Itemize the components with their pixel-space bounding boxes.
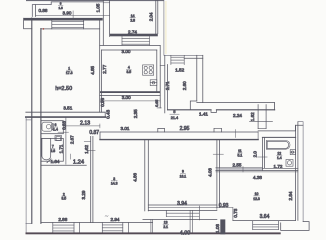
svg-text:3.00: 3.00 — [122, 49, 131, 54]
tilde mark — [105, 215, 108, 218]
svg-text:1.72: 1.72 — [274, 164, 283, 169]
highlighter mark — [165, 1, 167, 54]
svg-text:14: 14 — [131, 14, 135, 18]
svg-text:0.87: 0.87 — [89, 130, 99, 136]
svg-text:2.77: 2.77 — [102, 64, 107, 73]
ground line bottom — [26, 232, 281, 234]
balcony A inner wall face — [34, 5, 36, 17]
svg-text:2.1: 2.1 — [163, 225, 168, 229]
notch in wall — [211, 110, 217, 113]
wall: corridor vertical left — [165, 55, 168, 113]
toilet — [42, 122, 54, 131]
bathroom12 bottom wall — [262, 168, 298, 170]
tick 1.64 — [47, 159, 51, 163]
svg-text:1.05: 1.05 — [95, 3, 100, 12]
svg-text:0.88: 0.88 — [39, 8, 48, 13]
svg-text:0.65: 0.65 — [155, 100, 159, 107]
svg-text:12.3: 12.3 — [253, 197, 260, 201]
tick 1.24 — [69, 154, 71, 159]
wall: kitchen right — [157, 45, 160, 108]
room9 bottom inner face — [148, 204, 217, 206]
svg-text:2.67: 2.67 — [69, 135, 74, 144]
sill loggia — [148, 209, 217, 211]
dimension line 3.94/0.93 — [148, 206, 233, 210]
svg-text:1.41: 1.41 — [199, 111, 208, 116]
wall: kitchen bottom — [100, 91, 161, 93]
tick at loggia window right — [198, 206, 200, 220]
heater room12 — [286, 160, 293, 167]
window shaft vertical — [250, 105, 273, 129]
room1 top inner face — [41, 28, 100, 30]
room label 9/16.1 — [180, 169, 187, 178]
bathroom outer face — [65, 117, 67, 164]
shaft wall / room11 right — [262, 137, 264, 170]
tick on divider top — [84, 140, 91, 142]
tick 0.83 — [58, 131, 69, 133]
svg-text:0.83: 0.83 — [61, 121, 66, 130]
svg-text:2.55: 2.55 — [233, 162, 242, 167]
window room10 — [253, 221, 279, 230]
room label 4/8.5 — [126, 65, 131, 73]
svg-text:2.71: 2.71 — [165, 81, 170, 90]
tick 1.62 left — [86, 149, 95, 151]
wall rooms2-3 bottom inner face — [41, 222, 152, 224]
svg-text:1: 1 — [68, 66, 70, 70]
svg-text:2.13: 2.13 — [80, 120, 90, 126]
svg-text:4.86: 4.86 — [133, 173, 138, 182]
room label 1/17.3 — [66, 66, 73, 75]
svg-text:2.74: 2.74 — [128, 29, 137, 34]
svg-text:3.64: 3.64 — [260, 214, 270, 220]
svg-text:2.95: 2.95 — [180, 126, 190, 132]
tick 2.0 — [258, 156, 268, 158]
svg-text:1.52: 1.52 — [175, 67, 184, 72]
svg-text:2.0: 2.0 — [253, 151, 258, 158]
room label 2/8.5 — [61, 192, 66, 200]
balcony A outline — [32, 2, 102, 17]
bathtub room12 — [266, 141, 290, 150]
window room1 top — [52, 19, 84, 29]
pier on wall 1 — [158, 128, 165, 132]
wall: room9 right / room11 left — [217, 140, 220, 208]
svg-text:4.08: 4.08 — [208, 168, 213, 177]
room label 7/2.8 — [50, 145, 55, 153]
sink kitchen — [150, 80, 157, 86]
svg-text:5: 5 — [173, 110, 175, 114]
wall: room10 right — [296, 122, 298, 221]
loggia top line — [143, 219, 217, 221]
scan top edge — [26, 0, 164, 1]
room label 14/2.8 — [130, 14, 136, 22]
svg-text:4: 4 — [128, 65, 130, 69]
svg-text:1.62: 1.62 — [250, 112, 255, 121]
svg-text:4.00: 4.00 — [180, 230, 191, 235]
svg-text:2.60: 2.60 — [182, 81, 187, 90]
wall: kitchen top — [100, 45, 161, 50]
svg-text:10: 10 — [255, 192, 259, 196]
svg-text:2.35: 2.35 — [133, 109, 138, 118]
svg-text:8: 8 — [60, 2, 62, 6]
outline right cap — [298, 122, 303, 222]
svg-text:1.08: 1.08 — [215, 224, 220, 233]
outline left — [26, 117, 32, 232]
wall: corridor bottom / rooms 3,9,11 top — [100, 132, 258, 140]
window corridor top — [171, 55, 184, 64]
wall: room14 left — [103, 0, 109, 45]
svg-text:2.88: 2.88 — [58, 217, 67, 222]
svg-text:2.84: 2.84 — [288, 191, 293, 200]
svg-text:2.04: 2.04 — [149, 12, 154, 21]
room label 5/21.4 — [170, 110, 179, 120]
svg-text:3.29: 3.29 — [81, 190, 86, 199]
wall: room14 right — [156, 0, 158, 34]
pier on wall 2 — [214, 128, 222, 132]
svg-text:2.8: 2.8 — [50, 149, 55, 153]
bathtub — [42, 138, 51, 160]
dimension ticks 1.05 — [103, 3, 109, 16]
wall: room11 bottom — [216, 168, 263, 171]
wall: corridor top left (room1 bottom) — [26, 112, 105, 117]
step outline room9/room10 — [232, 208, 234, 221]
arm inner step — [190, 101, 197, 109]
window loggia — [166, 210, 199, 216]
svg-text:2.24: 2.24 — [233, 113, 242, 118]
svg-text:1.24: 1.24 — [73, 159, 85, 165]
svg-text:1.5: 1.5 — [58, 6, 63, 10]
svg-text:8.5: 8.5 — [61, 197, 66, 201]
svg-text:1.62: 1.62 — [84, 145, 89, 154]
window/steps between room14 and kitchen — [122, 36, 149, 45]
svg-text:17.3: 17.3 — [66, 71, 73, 75]
svg-text:4.85: 4.85 — [90, 65, 95, 74]
room label 3/14.3 — [111, 177, 118, 186]
window room2 — [53, 223, 80, 233]
svg-text:3.01: 3.01 — [121, 126, 130, 131]
building outline right of kitchen — [164, 0, 203, 55]
svg-text:21.4: 21.4 — [171, 116, 178, 120]
svg-text:2.8: 2.8 — [130, 18, 135, 22]
loggia right wall — [190, 210, 192, 232]
room label 6/1.4 — [53, 123, 58, 131]
strip bottom cap — [157, 107, 161, 109]
svg-text:2.94: 2.94 — [111, 217, 120, 222]
sink room12 — [290, 150, 295, 155]
stove — [143, 65, 154, 75]
cap kitchen to corridor — [160, 64, 165, 66]
bathroom box — [41, 138, 63, 161]
dimension line 3.90 — [36, 11, 103, 18]
wall: room1 top (balcony floor) — [24, 18, 103, 21]
svg-text:0.43: 0.43 — [106, 109, 111, 118]
svg-text:9: 9 — [182, 169, 184, 173]
room10 bottom wall — [233, 220, 296, 222]
window room3 — [102, 223, 128, 233]
room label 12/1.4 — [277, 152, 282, 160]
wall: room14 bottom — [110, 34, 158, 37]
washbasin — [55, 136, 62, 141]
dimension line chain rooms10-12 — [216, 171, 298, 173]
svg-text:4.38: 4.38 — [253, 175, 262, 180]
tick on room9 right wall — [213, 153, 223, 155]
wall: room1/room2 left outer — [31, 18, 33, 223]
svg-text:3.94: 3.94 — [177, 201, 187, 207]
wall: corridor top right band — [168, 103, 275, 110]
wc box — [41, 121, 63, 134]
svg-text:14.3: 14.3 — [111, 181, 118, 185]
wall: room1/room2 left inner — [40, 29, 42, 224]
svg-text:5.1: 5.1 — [238, 153, 243, 157]
svg-text:3.90: 3.90 — [63, 11, 72, 16]
corridor right end wall — [258, 125, 303, 131]
bathroom12 top wall — [262, 136, 295, 138]
room label 10/12.3 — [253, 192, 260, 201]
pier dark bottom — [220, 219, 225, 234]
svg-text:h=2.50: h=2.50 — [55, 86, 72, 92]
svg-text:3.00: 3.00 — [122, 95, 131, 100]
svg-text:0.93: 0.93 — [219, 203, 229, 209]
svg-text:0.73: 0.73 — [233, 208, 238, 217]
svg-text:1.4: 1.4 — [277, 156, 282, 160]
room label 11/5.1 — [238, 149, 243, 157]
svg-text:1.4: 1.4 — [53, 127, 58, 131]
red mark — [43, 28, 45, 30]
dimension line 3.00 — [100, 99, 160, 103]
svg-text:0.96: 0.96 — [100, 97, 105, 106]
wall room2 top — [41, 164, 86, 166]
wall: divider rooms2-3 — [91, 136, 93, 222]
tick on corridor wall — [235, 130, 237, 138]
svg-text:3.51: 3.51 — [63, 105, 72, 110]
tick 2.55 dim — [242, 167, 244, 173]
svg-text:3: 3 — [113, 177, 115, 181]
svg-text:1.64: 1.64 — [51, 159, 60, 164]
svg-text:16.1: 16.1 — [180, 174, 187, 178]
balcony bottom right outline — [281, 222, 309, 231]
wall: kitchen left — [100, 19, 102, 113]
room label 13/2.1 — [163, 221, 169, 229]
pier left end — [24, 18, 32, 29]
svg-text:8.5: 8.5 — [126, 70, 131, 74]
wall: room3 right / room9 left — [145, 140, 149, 211]
dimension line 2.13 — [65, 124, 100, 128]
wall: corridor vertical right — [197, 55, 203, 102]
loggia left wall — [151, 220, 153, 233]
wall line right of window — [184, 57, 203, 59]
svg-text:1.71: 1.71 — [59, 144, 64, 153]
room label 8/1.5 — [58, 2, 63, 10]
